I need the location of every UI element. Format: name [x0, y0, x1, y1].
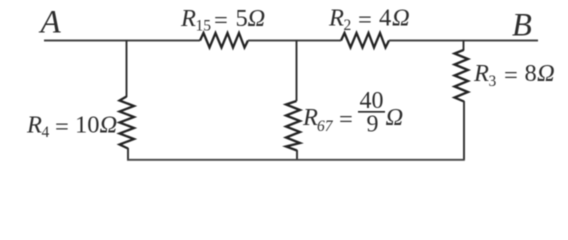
svg-text:67: 67	[317, 118, 334, 135]
svg-text:15: 15	[196, 18, 212, 35]
wire: top left segment from A to R15	[44, 40, 200, 42]
svg-text:4: 4	[42, 124, 50, 141]
svg-text:3: 3	[489, 73, 497, 90]
wire: top middle segment between R15 and R2	[248, 40, 341, 42]
svg-text:R: R	[328, 5, 344, 32]
resistor R4	[120, 97, 135, 149]
svg-text:=: =	[55, 114, 69, 141]
svg-text:5: 5	[236, 5, 248, 32]
svg-text:A: A	[39, 4, 62, 40]
svg-text:Ω: Ω	[392, 5, 410, 32]
wire: R4 branch top lead	[126, 41, 128, 98]
resistor R3	[455, 50, 469, 102]
svg-text:8: 8	[525, 60, 537, 87]
wire: R3 branch bottom lead	[463, 101, 465, 160]
wire: R67 branch top lead	[296, 41, 298, 102]
svg-text:=: =	[339, 106, 353, 133]
wire: R67 branch bottom lead	[296, 150, 298, 160]
wire: top right segment from R2 to B	[389, 40, 538, 42]
resistor R2	[341, 33, 389, 48]
wire: bottom return wire	[127, 159, 465, 161]
resistor R67	[286, 101, 300, 151]
wire: R4 branch bottom lead	[127, 148, 129, 160]
svg-text:=: =	[358, 7, 372, 34]
svg-text:9: 9	[367, 112, 379, 138]
svg-text:Ω: Ω	[537, 60, 555, 87]
svg-text:R: R	[473, 60, 489, 87]
resistor R15	[200, 33, 248, 48]
svg-text:Ω: Ω	[386, 104, 404, 131]
svg-text:2: 2	[344, 17, 352, 34]
wire: R3 branch top lead	[463, 41, 465, 51]
svg-text:R: R	[302, 104, 318, 131]
svg-text:B: B	[512, 7, 532, 43]
svg-text:=: =	[214, 7, 228, 34]
svg-text:Ω: Ω	[248, 5, 266, 32]
svg-text:4: 4	[379, 5, 391, 32]
svg-text:10: 10	[75, 112, 100, 139]
svg-text:R: R	[26, 112, 42, 139]
svg-text:=: =	[504, 62, 518, 89]
svg-text:R: R	[180, 5, 196, 32]
svg-text:Ω: Ω	[100, 112, 118, 139]
svg-text:40: 40	[360, 88, 384, 114]
